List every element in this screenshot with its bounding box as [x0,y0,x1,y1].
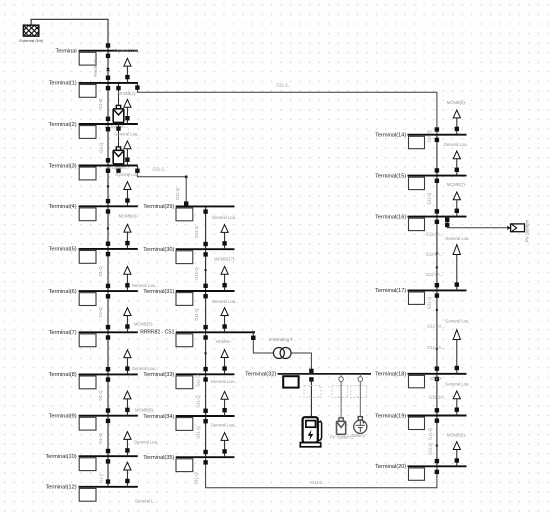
svg-text:Terminal: Terminal [55,49,76,55]
svg-text:Terminal(6): Terminal(6) [49,289,77,295]
svg-text:HCMSL-: HCMSL- [216,339,233,344]
svg-text:G11-2A...: G11-2A... [427,345,445,350]
svg-text:MCMB(6)-: MCMB(6)- [447,100,467,105]
wire right main feeder [436,135,438,467]
svg-text:Terminal(30): Terminal(30) [143,247,174,253]
load General Load at Terminal(18) [453,330,460,374]
busbar Terminal(2) [79,123,138,125]
result box Terminal(10) [79,458,96,471]
svg-text:Terminal(35): Terminal(35) [143,455,174,461]
load MCMB(2) load at Terminal(20) [453,442,460,467]
wire battery branch T2-T3 [118,124,120,147]
PV System symbol [507,224,524,232]
svg-text:G11-Q: G11-Q [196,374,201,387]
svg-text:PV System: PV System [525,219,530,242]
result box Terminal(12) [79,488,96,501]
busbar Terminal(14) [408,134,467,136]
busbar Terminal(7) [79,331,138,333]
breaker above Terminal(32) [309,369,313,373]
svg-text:G11-Q: G11-Q [194,267,199,280]
svg-text:G11-2A...: G11-2A... [426,272,444,277]
svg-text:Terminal(1): Terminal(1) [49,81,77,87]
svg-text:G1-Q: G1-Q [98,98,103,109]
wire Terminal(16) to PV System [447,217,507,228]
load MCMB(7) load at Terminal(16) [453,192,460,217]
result box Terminal(7) [79,334,96,347]
svg-text:G1-Q: G1-Q [98,390,103,401]
svg-text:G11-2...: G11-2... [153,166,168,171]
busbar Terminal(34) [176,415,235,417]
wire CS1 bus to transformer [253,332,273,353]
result box Terminal(5) [79,251,96,264]
busbar Terminal(29) [176,205,235,207]
busbar Terminal(31) [176,290,235,292]
svg-text:General Loa...: General Loa... [115,172,142,177]
svg-text:Terminal(20): Terminal(20) [375,464,406,470]
breaker feeder T1 branch [135,85,139,89]
node junction on Terminal(3) feeder [185,176,188,179]
svg-text:Terminal(10): Terminal(10) [46,454,77,460]
svg-text:General Loa...: General Loa... [114,48,141,53]
cubicle dashed box battery [351,386,367,398]
load General Load at Terminal(33) [221,350,228,375]
svg-text:General Loa...: General Loa... [211,379,238,384]
svg-text:Terminal(32): Terminal(32) [245,372,276,378]
wire battery branch T1-T2 [118,83,120,106]
breaker PV b [445,223,449,227]
svg-text:G11-Q: G11-Q [196,426,201,439]
svg-text:G11-Q: G11-Q [194,225,199,238]
result box Terminal(30) [176,251,193,264]
breaker CS1 right [251,336,255,340]
svg-text:G11-Q: G11-Q [428,442,433,455]
svg-text:MCMB(2)-: MCMB(2)- [447,432,467,437]
result box Terminal(32) [283,376,298,387]
busbar Terminal(19) [408,415,467,417]
result box Terminal(31) [176,293,193,306]
busbar Terminal [79,50,138,52]
busbar Terminal(35) [176,456,235,458]
busbar Terminal(32) [278,373,372,375]
svg-text:G11-Q: G11-Q [426,296,431,309]
busbar Terminal(18) [408,373,467,375]
svg-text:G11-2A...: G11-2A... [426,231,444,236]
svg-text:General Loa...: General Loa... [211,422,238,427]
svg-text:General Loa.: General Loa. [445,319,469,324]
result box Terminal(2) [79,126,96,139]
svg-text:G11-Q: G11-Q [194,472,199,485]
svg-text:Terminal(29): Terminal(29) [143,204,174,210]
svg-text:General Loa.: General Loa. [445,236,469,241]
wire external grid to Terminal [31,19,108,50]
busbar Terminal(5) [79,248,138,250]
cubicle dashed box PV [332,386,348,398]
result box Terminal(8) [79,376,96,389]
svg-text:Terminal(16): Terminal(16) [375,214,406,220]
result box RRRR82 - CS1 [176,334,193,347]
svg-text:Terminal(34): Terminal(34) [143,414,174,420]
svg-text:External Grid: External Grid [19,38,42,43]
busbar Terminal(10) [79,455,138,457]
load General Load at Terminal(7) [124,308,131,333]
load General Load at Terminal(9) [124,391,131,416]
svg-text:G11-Q: G11-Q [194,308,199,321]
external grid symbol [7,25,61,36]
result box Terminal [79,52,96,65]
battery B1 [354,417,367,434]
svg-text:G11-Q: G11-Q [196,395,201,408]
result box Terminal(9) [79,417,96,430]
svg-text:-Battery-: -Battery- [350,433,367,438]
load General Load at CS1 [221,308,228,333]
generation unit U1 (Terminal1-Terminal2) [113,105,124,122]
svg-text:G11-2A...: G11-2A... [427,324,445,329]
svg-text:Terminal(7): Terminal(7) [49,330,77,336]
wire battery drop [359,382,361,417]
load General Load at Terminal(31) [221,266,228,291]
wire transformer to Terminal(32) [291,353,311,374]
svg-text:Terminal(18): Terminal(18) [375,372,406,378]
result box Terminal(33) [176,376,193,389]
breaker battery branch below Terminal(3) [116,169,120,173]
svg-text:Terminal(3): Terminal(3) [49,163,77,169]
breaker battery branch below Terminal(2) [116,126,120,130]
load General Load at Terminal(35) [221,433,228,458]
svg-text:G11-Q: G11-Q [426,192,431,205]
load General Load at Terminal(1) [124,58,131,83]
load General Load at Terminal(8) [124,350,131,375]
wire Terminal(32) to charging station [310,379,312,417]
result box Terminal(35) [176,459,193,472]
load General Load at Terminal(4) [124,182,131,207]
svg-text:G11-2-: G11-2- [430,376,443,381]
node dots left feeder [107,185,109,187]
svg-text:Terminal(9): Terminal(9) [49,414,77,420]
svg-text:G11-2A...: G11-2A... [429,395,447,400]
result box Terminal(1) [79,85,96,98]
load General Load at Terminal(2) [124,99,131,124]
svg-text:Terminal(14): Terminal(14) [375,133,406,139]
breaker feeder T3 branch [135,169,139,173]
svg-text:G11-Q: G11-Q [428,427,433,440]
load General Load at Terminal(15) [453,151,460,176]
load General Load at Terminal(12) [124,462,131,487]
svg-text:G11-Q: G11-Q [426,130,431,143]
svg-text:G1-Q: G1-Q [98,433,103,444]
svg-text:Terminal(17): Terminal(17) [375,288,406,294]
svg-text:MCMB(7)-: MCMB(7)- [447,182,467,187]
svg-text:General Loa...: General Loa... [212,299,239,304]
svg-text:Terminal(2): Terminal(2) [49,122,77,128]
svg-text:General Loa...: General Loa... [114,132,141,137]
svg-text:Feeder Tie: Feeder Tie [93,56,98,77]
wire feeder Terminal(3) to Terminal(29) [137,166,186,207]
svg-text:Terminal(8): Terminal(8) [49,372,77,378]
svg-text:Terminal(12): Terminal(12) [46,485,77,491]
result box Terminal(6) [79,293,96,306]
svg-text:General Loa.: General Loa. [444,142,468,147]
wire tie Terminal(35) to Terminal(20) [206,457,437,488]
busbar Terminal(8) [79,373,138,375]
svg-text:MCMB(3)-: MCMB(3)- [134,322,154,327]
wire feeder Terminal(1) to Terminal(14) [137,83,437,135]
svg-text:Terminal(4): Terminal(4) [49,204,77,210]
result box Terminal(20) [409,468,425,480]
result box Terminal(19) [409,417,425,429]
busbar Terminal(4) [79,205,138,207]
svg-text:RRRR82 - CS1: RRRR82 - CS1 [140,330,174,336]
breaker below Terminal(32) [309,377,313,381]
wire PV drop [340,382,342,418]
load General Load at Terminal(34) [221,391,228,416]
result box Terminal(14) [409,136,425,148]
svg-text:General L...: General L... [135,498,157,503]
busbar Terminal(3) [79,165,138,167]
svg-text:MCMB(17)-: MCMB(17)- [214,257,236,262]
fuse circle PV drop [339,374,343,382]
generation unit U2 (Terminal2-Terminal3) [113,147,124,164]
load General Load at Terminal(5) [124,224,131,249]
svg-text:MCMB(4)-: MCMB(4)- [119,213,139,218]
result box Terminal(3) [79,167,96,180]
load General Load at Terminal(17) [453,245,460,291]
result box Terminal(34) [176,418,193,431]
svg-text:MCMB(8)-: MCMB(8)- [135,407,155,412]
svg-text:Terminal(15): Terminal(15) [375,173,406,179]
breakers left feeder [106,43,110,484]
svg-text:G11-2...: G11-2... [276,83,291,88]
busbar Terminal(30) [176,248,235,250]
busbar Terminal(9) [79,415,138,417]
svg-text:Terminal(31): Terminal(31) [143,289,174,295]
load General Load at Terminal(10) [124,432,131,457]
load General Load at Terminal(19) [453,391,460,416]
result box Terminal(4) [79,208,96,221]
load General Load at Terminal(30) [221,225,228,250]
busbar Terminal(15) [408,175,467,177]
svg-text:G11-2...: G11-2... [311,480,326,485]
svg-text:General Loa...: General Loa... [132,283,159,288]
wire left main feeder [107,51,109,487]
fuse X on left feeder [107,68,110,71]
load General Load at Terminal(6) [124,267,131,292]
charging station CS1 icon [300,417,321,447]
result box Terminal(18) [409,375,425,387]
result box Terminal(15) [409,177,425,189]
busbar Terminal(17) [408,289,467,291]
svg-text:G11-Q: G11-Q [175,187,180,200]
node dots middle feeder [205,269,207,271]
svg-text:MCMB(1)-: MCMB(1)- [118,91,138,96]
fuse circle battery drop [358,374,362,382]
svg-text:General Loa.: General Loa. [134,439,158,444]
busbar RRRR82 - CS1 [176,331,255,333]
result box Terminal(16) [409,218,425,230]
breaker battery branch below Terminal(1) [116,86,120,90]
load General Load at Terminal(3) [124,141,131,166]
node dots right feeder [436,252,438,254]
svg-text:Terminal(19): Terminal(19) [375,413,406,419]
busbar Terminal(33) [176,373,235,375]
node CS1 right on bus [252,331,254,333]
cubicle dashed box charging station [304,386,321,398]
svg-text:General Loa...: General Loa... [212,215,239,220]
svg-text:G1-Q: G1-Q [98,266,103,277]
svg-text:G1-Q: G1-Q [98,142,103,153]
result box Terminal(17) [409,292,425,304]
busbar Terminal(20) [408,465,467,467]
breaker PV a [445,218,449,222]
2-winding transformer T1 [273,348,291,359]
breakers right feeder [435,127,439,474]
svg-text:Terminal(5): Terminal(5) [49,247,77,253]
PV System unit (Terminal 32) [337,418,346,434]
load MCMB(6) load at Terminal(14) [453,110,460,135]
svg-text:General Loa.: General Loa. [445,382,469,387]
svg-text:G1-2: G1-2 [98,473,103,483]
svg-text:G1-Q: G1-Q [98,307,103,318]
busbar Terminal(12) [79,486,138,488]
breakers middle feeder [203,209,207,464]
svg-text:Terminal(33): Terminal(33) [143,372,174,378]
result box Terminal(29) [176,208,193,221]
busbar Terminal(6) [79,290,138,292]
busbar Terminal(16) [408,216,467,218]
wire middle main feeder [205,206,207,457]
svg-text:2-Winding T...: 2-Winding T... [269,337,297,342]
svg-text:General Loa...: General Loa... [132,366,159,371]
svg-text:G11-2A...: G11-2A... [426,252,444,257]
breaker above Terminal(29) [184,201,188,205]
busbar Terminal(1) [79,82,138,84]
